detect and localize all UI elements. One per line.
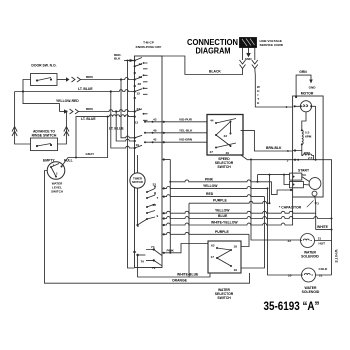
svg-text:12: 12	[139, 62, 143, 66]
svg-text:SWITCH: SWITCH	[217, 296, 231, 300]
start circle	[309, 178, 321, 190]
speed selector switch box	[207, 115, 243, 156]
long vertical bus left of timer	[128, 61, 135, 269]
svg-text:VIO-BRN: VIO-BRN	[179, 138, 193, 142]
svg-text:LT. BLUE: LT. BLUE	[109, 127, 124, 131]
wire VIO-PUR timer to speed selector	[163, 121, 208, 123]
svg-text:PURPLE: PURPLE	[213, 199, 227, 203]
svg-text:47: 47	[210, 150, 214, 154]
svg-text:19: 19	[234, 268, 238, 272]
wire GRN ground of motor	[296, 75, 311, 97]
svg-text:YELLOW: YELLOW	[203, 184, 218, 188]
svg-text:LT. BLUE: LT. BLUE	[81, 117, 96, 121]
svg-text:9: 9	[157, 214, 159, 218]
svg-text:2: 2	[56, 172, 58, 176]
cold water solenoid	[302, 268, 316, 282]
svg-text:KNOB-PUSH OFF: KNOB-PUSH OFF	[136, 45, 162, 49]
svg-text:1: 1	[53, 163, 55, 167]
wire bundle WHITE-YELLOW	[163, 197, 293, 225]
svg-text:BLUE: BLUE	[218, 214, 228, 218]
wire bundle YELLOW	[163, 186, 268, 188]
svg-text:YEL-BLK: YEL-BLK	[179, 128, 193, 132]
wire plug left stub (black)	[242, 48, 244, 61]
label RED-BLK	[114, 53, 122, 61]
svg-text:* CAPACITOR: * CAPACITOR	[279, 206, 302, 210]
wire advance switch left leg	[15, 92, 31, 145]
svg-text:YELLOW-RED: YELLOW-RED	[56, 99, 79, 103]
svg-text:74: 74	[151, 245, 155, 249]
wire to motor terminal 3	[247, 159, 293, 161]
svg-text:LT. BLUE: LT. BLUE	[78, 87, 93, 91]
svg-text:13: 13	[135, 121, 139, 125]
svg-text:1: 1	[286, 105, 288, 109]
svg-text:WHITE: WHITE	[317, 225, 329, 229]
svg-text:MOTOR: MOTOR	[132, 180, 144, 184]
motor terminal 2 wire to right riser	[316, 160, 332, 275]
water selector switch box	[208, 241, 241, 273]
part number	[264, 301, 320, 313]
svg-text:ORANGE: ORANGE	[172, 279, 188, 283]
svg-text:BLACK: BLACK	[209, 70, 221, 74]
label capacitor	[279, 206, 302, 210]
svg-text:21: 21	[319, 274, 323, 278]
motor box	[293, 96, 324, 197]
wire BLACK from timer top to plug	[161, 56, 243, 75]
svg-text:WHITE: WHITE	[334, 250, 338, 264]
svg-text:RINSE SWITCH: RINSE SWITCH	[32, 133, 57, 137]
svg-text:22: 22	[288, 239, 292, 243]
wire YEL-BLK	[163, 132, 208, 134]
svg-text:PURPLE: PURPLE	[215, 230, 229, 234]
wire VIO-BRN	[163, 141, 208, 143]
timer motor circle	[130, 173, 145, 188]
wire bundle RED	[163, 195, 265, 197]
motor terminal 5	[287, 149, 289, 153]
advance to rinse switch box	[31, 138, 58, 151]
svg-text:START: START	[298, 168, 310, 172]
timer motor contacts right side	[136, 155, 158, 228]
svg-text:70: 70	[133, 250, 137, 254]
svg-text:72: 72	[152, 266, 156, 270]
push-off switch at timer bottom	[133, 245, 162, 270]
door switch box	[31, 74, 58, 86]
svg-text:VIO-PUR: VIO-PUR	[179, 117, 193, 121]
svg-text:DOOR SW. N.O.: DOOR SW. N.O.	[31, 64, 56, 68]
title CONNECTION DIAGRAM	[187, 38, 238, 56]
svg-text:15: 15	[137, 92, 141, 96]
svg-text:17: 17	[211, 255, 215, 259]
svg-text:26: 26	[139, 75, 143, 79]
svg-text:3: 3	[287, 158, 289, 162]
svg-text:7: 7	[157, 196, 159, 200]
wire BRN door switch to timer	[57, 79, 66, 81]
comb to start switch	[258, 175, 290, 204]
vertical white-blue feeder	[188, 203, 190, 277]
svg-text:GND: GND	[309, 86, 317, 90]
start switch	[298, 168, 310, 172]
svg-text:32: 32	[153, 183, 157, 187]
svg-text:BRN: BRN	[86, 75, 93, 79]
aux winding 4PM	[302, 151, 314, 160]
wire bundle PURPLE	[189, 201, 270, 203]
svg-text:43: 43	[224, 134, 228, 138]
svg-text:WHITE-YELLOW: WHITE-YELLOW	[211, 221, 238, 225]
hot water solenoid	[301, 234, 315, 248]
svg-text:EMPTY: EMPTY	[43, 159, 55, 163]
wire WHITE solenoid common	[316, 229, 332, 231]
svg-text:YELLOW: YELLOW	[215, 209, 230, 213]
svg-text:HOT: HOT	[319, 241, 326, 245]
overload protector	[300, 101, 311, 112]
label T-M-CP KNOB-PUSH OFF	[136, 41, 162, 49]
svg-text:RED: RED	[206, 192, 214, 196]
timer box	[135, 56, 163, 268]
wire LT BLUE 2	[76, 115, 135, 158]
motor terminal 1	[286, 105, 288, 109]
water level switch	[47, 162, 65, 180]
svg-text:21: 21	[318, 237, 322, 241]
svg-text:28: 28	[138, 82, 142, 86]
svg-text:DIAGRAM: DIAGRAM	[196, 47, 231, 56]
svg-text:BLK: BLK	[114, 57, 121, 61]
wire bundle PURPLE 2	[163, 232, 250, 234]
svg-text:MOTOR: MOTOR	[301, 91, 314, 95]
svg-text:38: 38	[153, 203, 157, 207]
wire YELLOW-RED	[23, 92, 60, 112]
svg-text:SWITCH: SWITCH	[217, 165, 231, 169]
svg-text:PINK: PINK	[205, 177, 214, 181]
right riser inside motor	[315, 106, 317, 159]
wire bundle BLUE	[163, 217, 332, 219]
svg-text:GRN: GRN	[299, 70, 307, 74]
svg-text:44: 44	[210, 118, 214, 122]
svg-text:46: 46	[226, 151, 230, 155]
svg-text:42: 42	[153, 138, 157, 142]
wire BRN 2 with connectors	[60, 111, 65, 113]
wire WHITE-BLUE	[138, 255, 210, 277]
wire BRN-BLK speed selector to motor 5	[241, 130, 293, 151]
svg-text:76: 76	[141, 259, 145, 263]
capacitor circle	[312, 191, 317, 196]
svg-text:PINK: PINK	[167, 248, 175, 252]
svg-text:43: 43	[153, 117, 157, 121]
svg-text:SOLENOID: SOLENOID	[302, 290, 320, 294]
svg-text:WHITE-BLUE: WHITE-BLUE	[177, 273, 199, 277]
motor terminal 3	[287, 158, 289, 162]
wire timer terminal stub right	[163, 158, 171, 160]
svg-text:35-6193 “A”: 35-6193 “A”	[264, 301, 320, 313]
label LINE VOLTAGE SERVICE CORD	[260, 39, 284, 47]
svg-text:4PM: 4PM	[304, 151, 311, 155]
svg-text:49: 49	[153, 128, 157, 132]
timer inner contact stubs right	[143, 62, 148, 120]
svg-text:SERVICE CORD: SERVICE CORD	[260, 43, 284, 47]
wire GRAY water level to timer	[62, 117, 108, 167]
wire WHITE from plug down to motor	[255, 69, 293, 108]
wire advance switch right leg	[58, 112, 67, 145]
wire plug right stub (white)	[254, 48, 256, 61]
svg-text:BRN-BLK: BRN-BLK	[266, 146, 282, 150]
svg-text:2: 2	[317, 202, 319, 206]
timer terminal numbers	[135, 62, 143, 147]
svg-text:18: 18	[234, 244, 238, 248]
svg-text:SOLENOID: SOLENOID	[301, 254, 319, 258]
svg-text:GND: GND	[245, 57, 253, 61]
connector chevron white	[252, 60, 258, 69]
wire PINK pushoff to water selector	[163, 244, 209, 253]
wire speed sel 46 diagonal and riser to hot solenoid	[241, 155, 295, 240]
wire water level left to bottom orange	[45, 171, 250, 284]
ground stub	[247, 48, 251, 57]
svg-text:6PM: 6PM	[305, 134, 312, 138]
svg-text:19: 19	[136, 143, 140, 147]
wire vertical bus timer to push-off pink node	[169, 160, 171, 254]
wire RED dropper to selector 19	[241, 197, 265, 268]
svg-text:SWITCH: SWITCH	[51, 190, 63, 194]
svg-text:20: 20	[288, 274, 292, 278]
droppers from upper wires to timer lower terminals	[121, 80, 135, 138]
line voltage service cord plug	[240, 38, 257, 48]
wire door return / LT BLUE	[23, 80, 31, 92]
svg-text:27: 27	[137, 107, 141, 111]
svg-text:53: 53	[302, 173, 306, 177]
svg-text:GRAY: GRAY	[86, 152, 96, 156]
svg-text:63: 63	[211, 243, 215, 247]
svg-text:BRN: BRN	[86, 107, 93, 111]
svg-text:COLD: COLD	[319, 267, 329, 271]
wire bundle PINK	[170, 180, 292, 194]
connector chevron black	[240, 60, 246, 69]
svg-text:E: E	[257, 101, 259, 105]
wire bundle YELLOW 2 to capacitor	[163, 211, 316, 213]
main winding	[302, 112, 306, 130]
wire YELLOW dropper to cold solenoid	[268, 188, 295, 275]
timer internal terminals left column	[134, 58, 142, 150]
